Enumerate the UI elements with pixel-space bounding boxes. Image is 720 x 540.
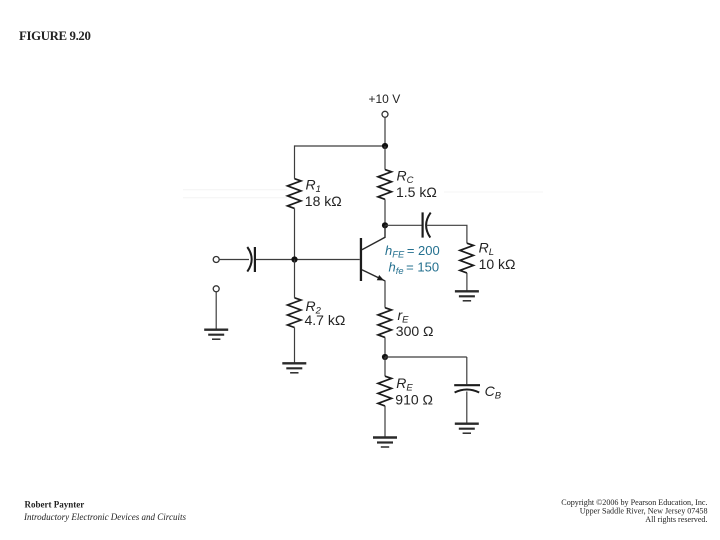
faint artifact line left upper [183, 189, 287, 191]
svg-text:hFE = 200: hFE = 200 [385, 243, 440, 260]
wire CB top lead [466, 357, 468, 384]
faint artifact line left lower [183, 197, 287, 199]
ground CB [455, 424, 479, 434]
svg-text:910 Ω: 910 Ω [395, 392, 433, 408]
wire RE bottom lead [384, 406, 386, 438]
resistor RL [460, 243, 474, 273]
capacitor CB top plate [454, 384, 480, 386]
svg-text:+10 V: +10 V [369, 92, 401, 106]
ground R2 [282, 363, 306, 373]
faint artifact line right [444, 191, 543, 193]
node base junction [291, 256, 297, 262]
transistor Q1 base bar [360, 238, 362, 281]
capacitor input: curved plate [247, 247, 251, 272]
svg-text:300 Ω: 300 Ω [396, 323, 434, 339]
wire R1 top lead [294, 145, 296, 178]
wire RC top lead [384, 146, 386, 170]
transistor Q1 collector lead [362, 225, 385, 250]
transistor Q1 emitter arrow [377, 275, 384, 280]
wire coupling cap to RL corner [427, 225, 467, 243]
wire RL bottom lead [466, 273, 468, 291]
wire rE bottom lead [384, 337, 386, 357]
svg-text:Robert Paynter: Robert Paynter [25, 499, 85, 509]
svg-text:Introductory Electronic Device: Introductory Electronic Devices and Circ… [23, 512, 186, 522]
node collector junction [382, 222, 388, 228]
resistor R1 [288, 179, 302, 209]
capacitor CB curved plate [455, 390, 480, 393]
resistor RE [378, 376, 392, 406]
wire RC bottom lead [384, 199, 386, 225]
wire input to cap [219, 259, 249, 261]
wire emitter rail to CB [385, 356, 467, 358]
wire R2 top lead [294, 260, 296, 298]
ground input [204, 330, 228, 340]
supply terminal circle [382, 111, 388, 117]
ground terminal circle [213, 286, 219, 292]
wire terminal to input ground [215, 292, 217, 330]
svg-text:10 kΩ: 10 kΩ [479, 256, 516, 272]
svg-text:FIGURE 9.20: FIGURE 9.20 [19, 29, 91, 43]
capacitor coupling: curved plate [426, 213, 431, 238]
svg-text:18 kΩ: 18 kΩ [305, 193, 342, 209]
wire top rail [295, 145, 386, 147]
resistor RC [378, 170, 392, 200]
wire R2 bottom lead [294, 328, 296, 364]
wire R1 bottom lead [294, 208, 296, 259]
ground RE [373, 438, 397, 448]
wire RE top lead [384, 357, 386, 376]
wire supply to top rail [384, 118, 386, 147]
svg-text:hfe = 150: hfe = 150 [389, 259, 440, 276]
input terminal circle [213, 257, 219, 263]
svg-text:All rights reserved.: All rights reserved. [645, 515, 707, 524]
resistor rE [378, 308, 392, 338]
ground RL [455, 291, 479, 301]
svg-text:CB: CB [485, 383, 502, 402]
svg-text:1.5 kΩ: 1.5 kΩ [396, 184, 437, 200]
wire CB bottom lead [466, 392, 468, 424]
wire cap to base junction [256, 259, 360, 261]
transistor Q1 emitter lead [362, 270, 385, 281]
node supply junction [382, 143, 388, 149]
node emitter junction [382, 354, 388, 360]
capacitor input: straight plate [254, 247, 256, 272]
wire collector rail to coupling cap [385, 224, 422, 226]
capacitor coupling: straight plate [422, 212, 424, 237]
wire emitter to rE [384, 281, 386, 308]
resistor R2 [288, 298, 302, 328]
svg-text:4.7 kΩ: 4.7 kΩ [305, 312, 346, 328]
